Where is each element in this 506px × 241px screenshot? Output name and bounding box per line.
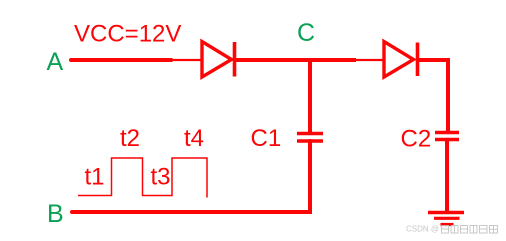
capacitor C1 xyxy=(297,134,323,142)
svg-text:t4: t4 xyxy=(184,125,204,152)
wire C1 bottom to B rail xyxy=(72,141,310,212)
wire node C junction down to C1 xyxy=(308,58,312,134)
wire C2 bottom to ground xyxy=(445,140,449,212)
watermark CJK glyph blocks xyxy=(442,226,498,234)
svg-text:VCC=12V: VCC=12V xyxy=(74,21,181,48)
waveform square wave trace xyxy=(78,158,207,198)
svg-text:C: C xyxy=(297,19,315,47)
svg-text:t2: t2 xyxy=(120,125,140,152)
svg-text:A: A xyxy=(47,48,64,76)
ground symbol xyxy=(428,213,464,225)
diode D2 xyxy=(384,42,418,78)
wire D2 cathode to corner down to C2 xyxy=(419,60,448,132)
svg-text:CSDN @: CSDN @ xyxy=(406,225,439,234)
diode D1 xyxy=(202,42,235,78)
svg-text:B: B xyxy=(47,200,64,228)
svg-text:t3: t3 xyxy=(151,163,171,190)
svg-text:C2: C2 xyxy=(401,126,432,153)
wire D1 cathode to node C to diode D2 anode xyxy=(236,58,356,62)
wire A to diode D1 anode xyxy=(71,58,173,62)
svg-text:C1: C1 xyxy=(251,125,282,152)
svg-text:t1: t1 xyxy=(85,163,105,190)
capacitor C2 xyxy=(435,133,459,140)
